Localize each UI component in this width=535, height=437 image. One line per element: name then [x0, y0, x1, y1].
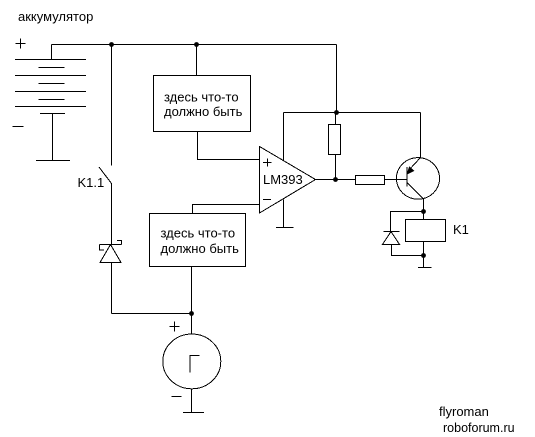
- switch K1.1 blade: [99, 167, 112, 184]
- generator G1 circle: [163, 334, 221, 389]
- transistor collector lead: [408, 183, 424, 199]
- wire top rail drop to mid rail: [336, 45, 338, 113]
- transistor Q1 (PNP): [396, 158, 439, 200]
- wire op-amp output: [316, 179, 356, 181]
- wire rail to R1: [335, 113, 337, 125]
- resistor R2 (horizontal): [356, 176, 385, 185]
- wire mid rail: [284, 112, 421, 114]
- wire to relay ground: [423, 256, 425, 268]
- node junction relay bottom: [421, 253, 426, 258]
- node junction generator top: [189, 311, 194, 316]
- ground (relay): [418, 267, 432, 269]
- generator minus sign: [172, 396, 182, 398]
- node junction output: [333, 177, 338, 182]
- wire top rail: [52, 44, 337, 46]
- svg-text:flyroman: flyroman: [439, 404, 489, 419]
- wire to switch: [111, 45, 113, 166]
- wire bottom horizontal to generator node: [112, 313, 192, 315]
- battery minus sign: [13, 126, 24, 128]
- wire switch to zener: [111, 184, 113, 245]
- wire rail to box1: [196, 45, 198, 76]
- wire collector down: [423, 199, 425, 212]
- ground (op-amp): [276, 227, 294, 229]
- wire rail to transistor emitter: [420, 113, 422, 158]
- svg-text:должно быть: должно быть: [164, 104, 243, 119]
- svg-text:K1: K1: [453, 222, 469, 237]
- wire zener to bottom: [111, 263, 113, 314]
- wire R2 to transistor base: [385, 179, 407, 181]
- wire box2 to op-amp minus input: [193, 205, 260, 214]
- svg-text:здесь что-то: здесь что-то: [164, 90, 239, 105]
- battery plus sign: [16, 39, 26, 49]
- battery ground stem: [52, 114, 54, 161]
- generator letter Г: [190, 356, 200, 373]
- svg-text:LM393: LM393: [263, 172, 303, 187]
- wire diode bottom: [392, 245, 424, 256]
- relay K1: [406, 220, 446, 242]
- node junction relay top: [421, 209, 426, 214]
- wire op-amp V+ stem: [283, 113, 285, 161]
- svg-text:K1.1: K1.1: [78, 175, 105, 190]
- svg-text:аккумулятор: аккумулятор: [18, 9, 93, 24]
- svg-text:здесь что-то: здесь что-то: [161, 226, 236, 241]
- transistor emitter lead with arrow: [409, 158, 421, 171]
- diode VD2: [383, 232, 400, 245]
- ground (generator): [183, 412, 204, 414]
- generator plus sign: [170, 322, 180, 332]
- node junction mid rail: [334, 110, 339, 115]
- wire box2 to generator: [191, 267, 193, 335]
- transistor base bar: [406, 167, 408, 187]
- zener diode VD1: [100, 241, 122, 263]
- op-amp minus input label: [263, 199, 271, 201]
- wire op-amp ground stem: [283, 200, 285, 228]
- op-amp U1 LM393: [260, 147, 316, 214]
- wire generator bottom: [191, 389, 193, 413]
- wire relay top left branch: [391, 212, 424, 232]
- svg-text:должно быть: должно быть: [161, 241, 240, 256]
- wire relay to ground node: [423, 242, 425, 256]
- wire box1 to op-amp plus input: [198, 132, 260, 160]
- wire R1 to output: [335, 155, 337, 180]
- op-amp plus input label: [263, 159, 272, 167]
- resistor R1 (vertical): [329, 125, 341, 155]
- svg-text:roboforum.ru: roboforum.ru: [443, 421, 515, 435]
- block box1 "здесь что-то должно быть": [154, 76, 251, 132]
- wire junction to relay: [423, 212, 425, 220]
- node junction top-mid: [194, 42, 199, 47]
- block box2 "здесь что-то должно быть": [150, 214, 246, 267]
- battery GB1: [15, 45, 86, 114]
- ground (battery): [36, 160, 70, 162]
- node junction top-left: [109, 42, 114, 47]
